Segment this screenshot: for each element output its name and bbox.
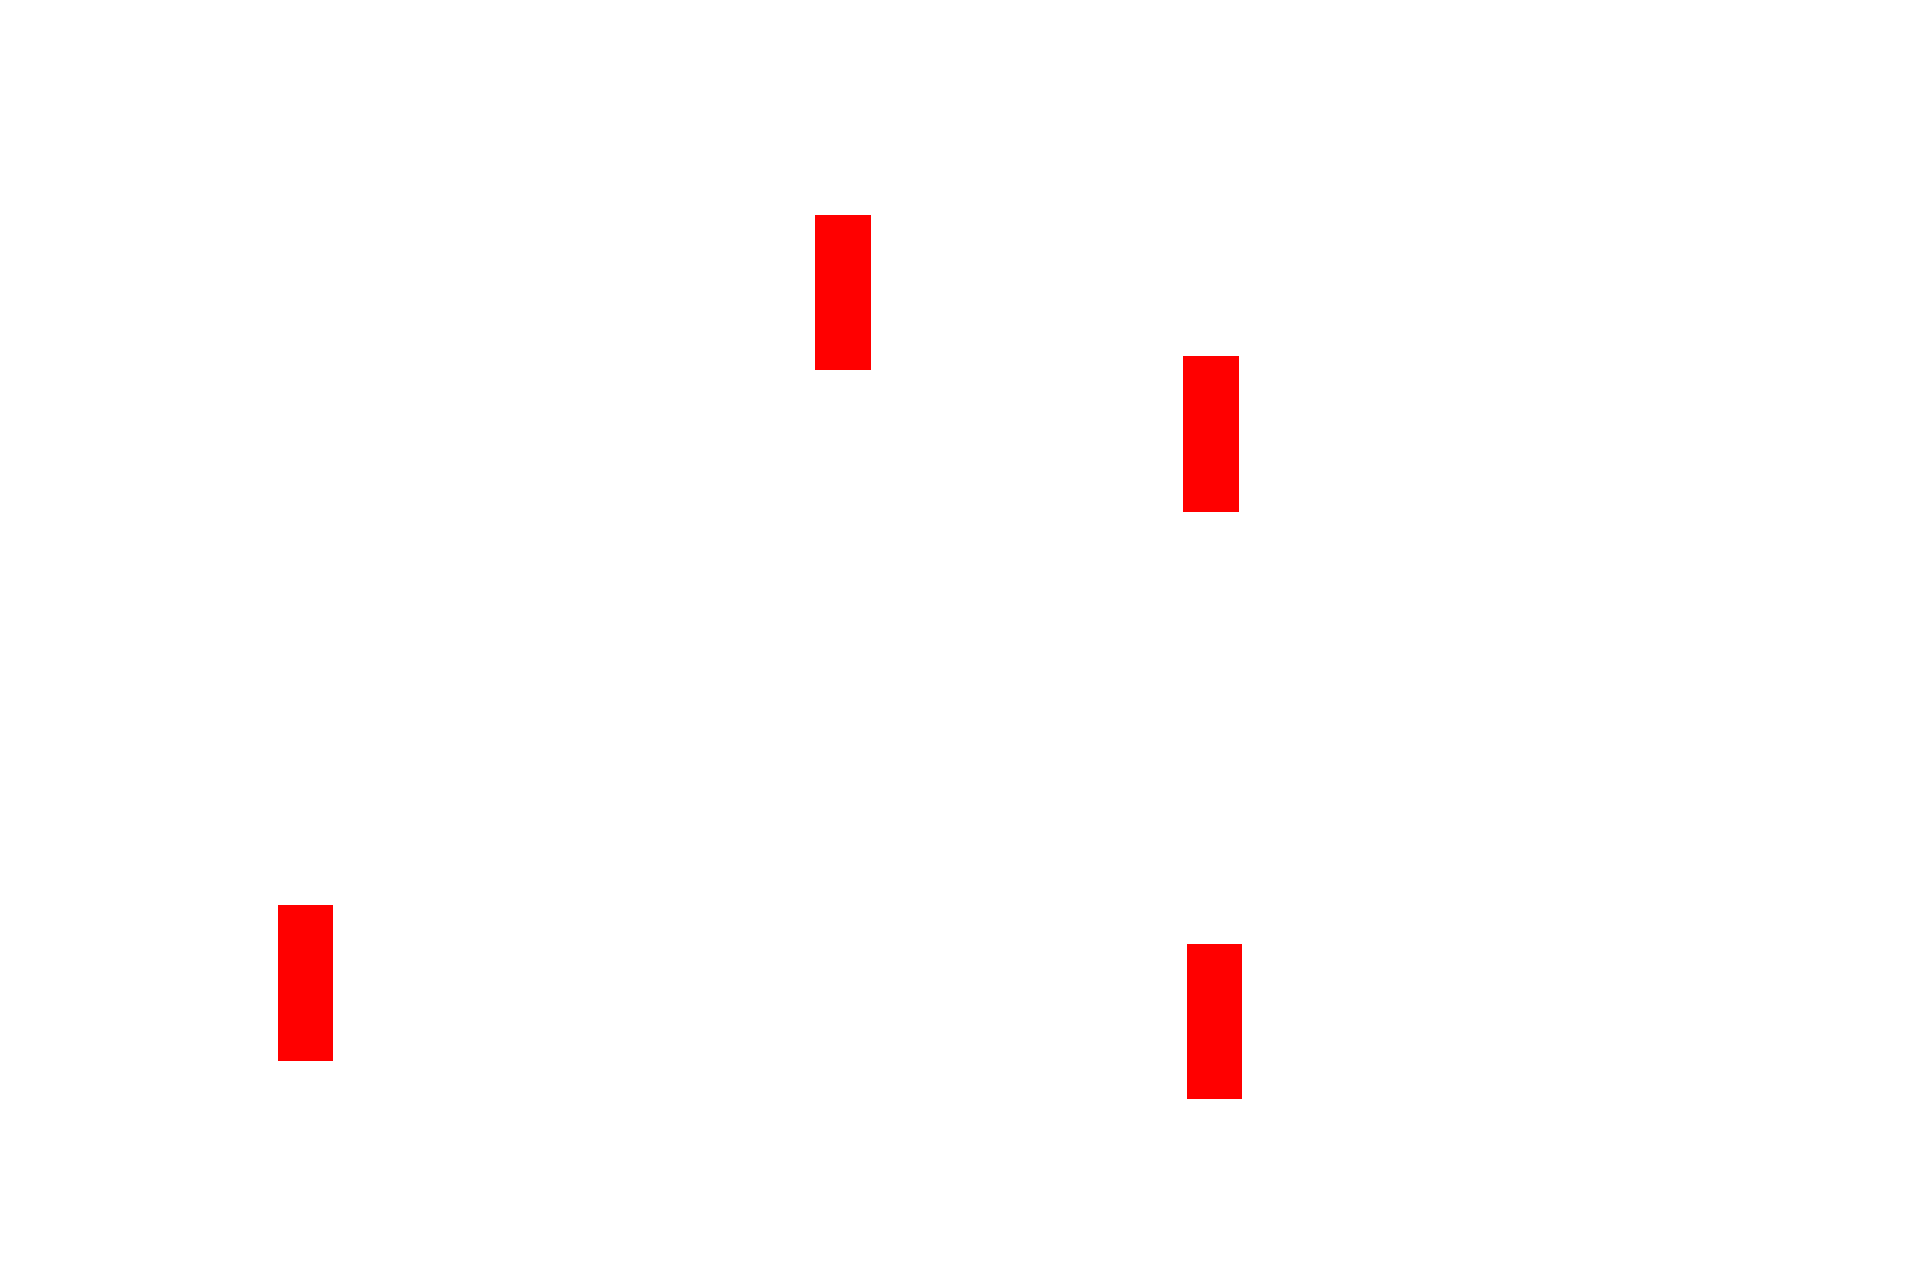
red bar 4 (lower-right)	[1187, 944, 1242, 1099]
red bar 3 (lower-left)	[278, 905, 333, 1061]
red bar 2 (upper-right)	[1183, 356, 1239, 512]
red bar 1 (top-center)	[815, 215, 871, 370]
